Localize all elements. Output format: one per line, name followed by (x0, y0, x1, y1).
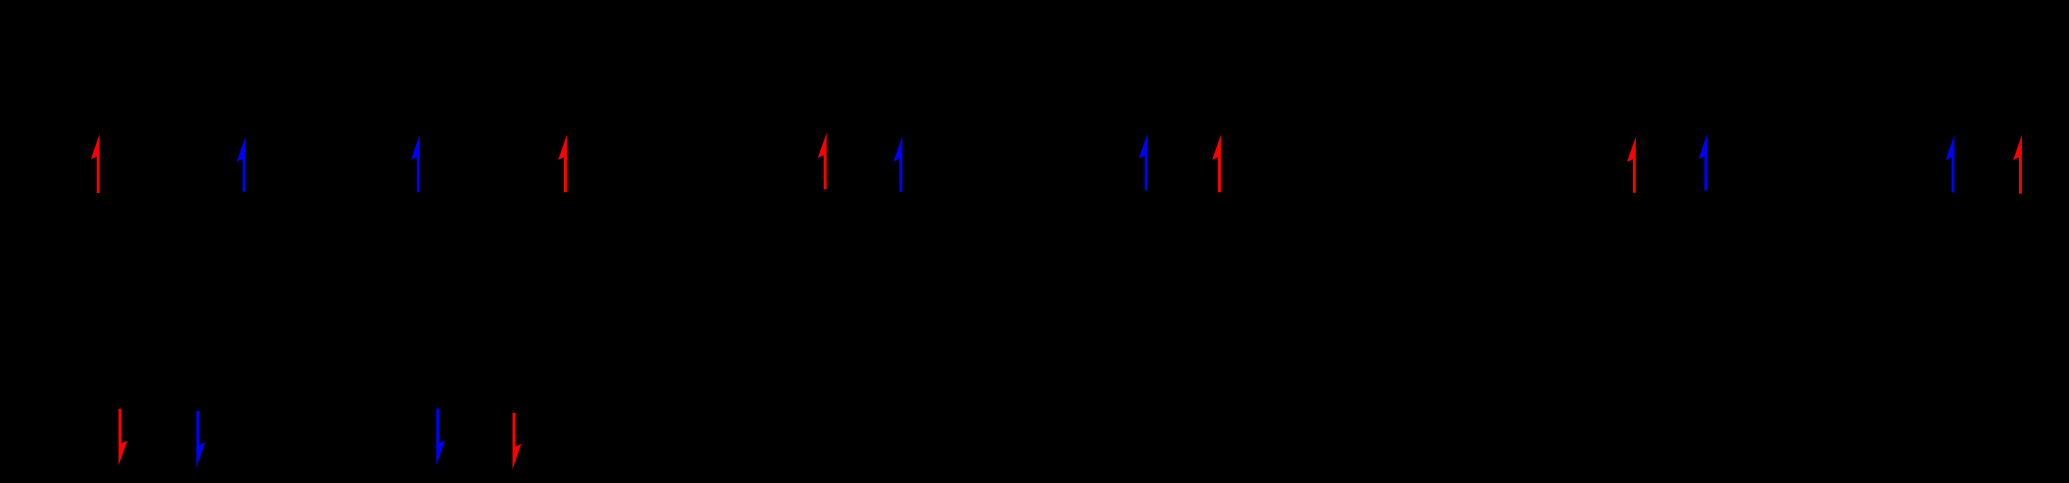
product pair 1 spin up (blue) right electron (1699, 134, 1708, 191)
radical pair 2 electron spin down (blue) on radical A (436, 409, 445, 466)
encounter pair 1 spin up (red) left electron (818, 133, 827, 190)
encounter pair 1 spin up (blue) right electron (894, 136, 903, 192)
radical pair 1 electron spin down (red) on radical A (119, 409, 128, 466)
radical pair 2 electron spin down (red) on radical B (513, 413, 522, 469)
encounter pair 2 spin up (blue) left electron (1139, 133, 1148, 190)
radical pair 1 electron spin down (blue) on radical B (196, 411, 205, 468)
radical pair 1 electron spin up (blue) on radical B (237, 137, 246, 192)
product pair 2 spin up (red) right electron (2013, 135, 2022, 194)
radical pair 2 electron spin up (blue) on radical A (411, 135, 420, 193)
radical pair 2 electron spin up (red) on radical B (558, 135, 567, 193)
encounter pair 2 spin up (red) right electron (1212, 135, 1221, 193)
product pair 1 spin up (red) left electron (1627, 137, 1636, 193)
radical pair 1 electron spin up (red) on radical A (91, 134, 100, 193)
product pair 2 spin up (blue) left electron (1946, 135, 1955, 193)
